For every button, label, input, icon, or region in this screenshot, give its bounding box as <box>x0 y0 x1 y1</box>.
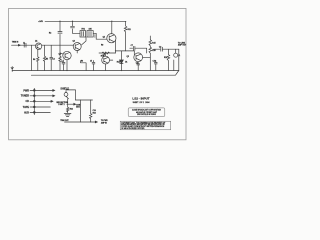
svg-text:TUNER: TUNER <box>21 95 30 98</box>
svg-text:RV1: RV1 <box>82 29 85 31</box>
svg-text:AUX: AUX <box>24 111 29 114</box>
svg-text:R12: R12 <box>117 61 120 63</box>
svg-text:C8: C8 <box>136 63 138 65</box>
svg-text:C2: C2 <box>53 58 55 60</box>
svg-text:Q5: Q5 <box>127 56 129 58</box>
svg-text:TAPE: TAPE <box>23 106 30 109</box>
svg-text:C7: C7 <box>131 45 133 47</box>
svg-text:SHIELD: SHIELD <box>60 88 69 91</box>
svg-text:CD: CD <box>26 100 30 103</box>
svg-text:AMP OUT: AMP OUT <box>178 44 187 47</box>
svg-text:C1: C1 <box>23 42 25 44</box>
svg-text:R11: R11 <box>128 29 131 31</box>
svg-text:SHEET 1 OF 2 10/84: SHEET 1 OF 2 10/84 <box>133 102 150 104</box>
svg-text:R24: R24 <box>93 111 96 114</box>
svg-text:R6: R6 <box>81 61 83 63</box>
svg-text:R2: R2 <box>49 33 51 35</box>
svg-text:Q2: Q2 <box>59 54 61 56</box>
svg-text:R9: R9 <box>101 44 103 46</box>
svg-text:2 SHT 2: 2 SHT 2 <box>58 104 64 106</box>
svg-text:R15: R15 <box>152 43 155 45</box>
svg-text:C9: C9 <box>159 46 161 48</box>
svg-text:R4: R4 <box>33 58 35 61</box>
svg-text:R5: R5 <box>46 58 48 60</box>
svg-text:PWR: PWR <box>23 89 29 92</box>
svg-text:R18: R18 <box>164 57 167 59</box>
svg-text:TRIM IN: TRIM IN <box>12 42 19 44</box>
svg-text:Q3: Q3 <box>73 41 75 43</box>
svg-text:AMP IN: AMP IN <box>101 121 108 124</box>
svg-text:R16: R16 <box>152 50 155 52</box>
svg-text:+24V: +24V <box>38 20 43 23</box>
svg-text:J1: J1 <box>178 55 180 57</box>
svg-text:C10: C10 <box>153 61 156 63</box>
svg-text:Q6: Q6 <box>103 55 105 57</box>
svg-text:D1: D1 <box>125 61 127 63</box>
svg-text:Q1: Q1 <box>35 40 37 42</box>
svg-text:R22: R22 <box>70 109 73 111</box>
svg-text:BROOKFIELD WI 53005: BROOKFIELD WI 53005 <box>137 114 156 116</box>
svg-text:TRIM OUT: TRIM OUT <box>60 120 69 122</box>
svg-text:C5: C5 <box>90 61 92 63</box>
svg-text:LS2 - INPUT: LS2 - INPUT <box>132 96 149 100</box>
svg-text:Q4: Q4 <box>103 36 105 39</box>
